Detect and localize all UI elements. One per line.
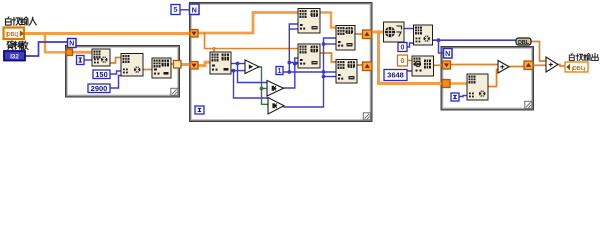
svg-text:150: 150 bbox=[95, 70, 108, 79]
svg-text:0: 0 bbox=[400, 56, 404, 65]
svg-text:DBL: DBL bbox=[518, 40, 530, 46]
svg-text:): ) bbox=[583, 66, 585, 72]
svg-text:(: ( bbox=[572, 66, 574, 72]
svg-text:]: ] bbox=[16, 32, 18, 38]
svg-text:3648: 3648 bbox=[387, 71, 404, 80]
svg-text:1: 1 bbox=[278, 68, 282, 75]
svg-text:2900: 2900 bbox=[91, 84, 108, 93]
svg-text:N: N bbox=[69, 38, 74, 47]
svg-text:0: 0 bbox=[401, 45, 405, 52]
svg-text:[: [ bbox=[6, 32, 8, 38]
svg-text:I32: I32 bbox=[10, 53, 19, 60]
svg-text:N: N bbox=[445, 49, 450, 58]
svg-text:N: N bbox=[192, 5, 197, 14]
svg-text:5: 5 bbox=[173, 5, 177, 14]
